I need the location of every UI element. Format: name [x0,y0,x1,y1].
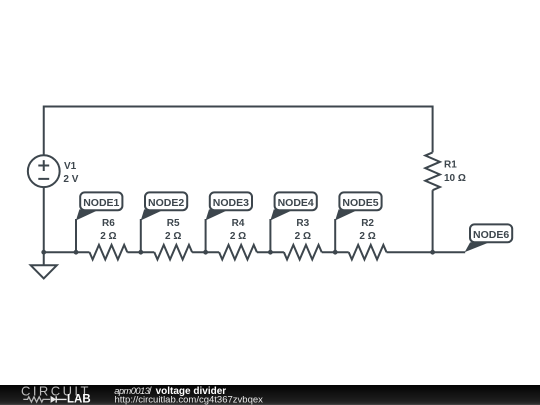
node NODE5 box [339,192,381,210]
junction node1 [74,250,79,255]
wire R6 to R5 [127,251,154,253]
wire NODE1 tail vertical [75,219,77,252]
wire bottom: ground node to R6 [43,251,90,253]
resistor R6 [90,245,128,260]
ground lead wire [43,252,45,265]
svg-text:NODE5: NODE5 [342,197,378,209]
junction node6 corner [430,250,435,255]
footer bar [0,385,540,405]
svg-text:NODE2: NODE2 [148,197,184,209]
node NODE4 tail [270,209,291,220]
wire left vertical to V1 top [43,106,45,156]
svg-text:http://circuitlab.com/cg4t367z: http://circuitlab.com/cg4t367zvbqex [115,394,264,405]
node NODE2 box [145,192,187,210]
svg-text:R5: R5 [167,218,180,229]
resistor R1 [425,152,440,190]
wire R1 bottom to corner junction [432,190,434,252]
resistor R3 [284,245,322,260]
node NODE3 tail [206,209,227,220]
node NODE5 tail [335,209,356,220]
svg-text:LAB: LAB [67,394,91,405]
svg-text:R4: R4 [232,218,245,229]
node NODE1 box [80,192,122,210]
wire NODE5 tail vertical [334,219,336,252]
node NODE1 tail [76,209,97,220]
wire NODE2 tail vertical [140,219,142,252]
wire R2 to NODE6 anchor [387,251,466,253]
wire NODE4 tail vertical [269,219,271,252]
svg-text:NODE3: NODE3 [213,197,249,209]
resistor R5 [154,245,192,260]
svg-text:R3: R3 [296,218,309,229]
wire right vertical to R1 top [432,106,434,153]
svg-text:NODE6: NODE6 [473,229,509,241]
svg-text:R1: R1 [444,160,457,171]
node NODE2 tail [141,209,162,220]
junction ground node [41,250,46,255]
node NODE4 box [275,192,317,210]
node NODE6 tail [465,242,488,252]
svg-text:2 Ω: 2 Ω [295,231,311,242]
resistor R2 [349,245,387,260]
wire R5 to R4 [192,251,219,253]
resistor R4 [219,245,257,260]
node NODE3 box [210,192,252,210]
junction node5 [333,250,338,255]
svg-text:V1: V1 [64,161,77,172]
wire R4 to R3 [257,251,284,253]
svg-text:NODE4: NODE4 [278,197,314,209]
wire R3 to R2 [322,251,349,253]
svg-text:R2: R2 [361,218,374,229]
junction node4 [268,250,273,255]
ground [31,265,57,278]
svg-text:2 Ω: 2 Ω [230,231,246,242]
svg-text:2 Ω: 2 Ω [359,231,375,242]
svg-text:NODE1: NODE1 [83,197,119,209]
logo resistor squiggle [23,397,50,402]
logo diode [51,396,57,403]
svg-text:10 Ω: 10 Ω [444,173,466,184]
svg-text:R6: R6 [102,218,115,229]
junction node3 [203,250,208,255]
wire V1 bottom to ground node [43,187,45,252]
wire NODE3 tail vertical [205,219,207,252]
wire top horizontal [44,106,433,108]
node NODE6 box [470,224,512,242]
svg-text:2 Ω: 2 Ω [100,231,116,242]
voltage source V1 [28,155,60,187]
svg-text:2 Ω: 2 Ω [165,231,181,242]
svg-text:2 V: 2 V [63,174,78,185]
junction node2 [138,250,143,255]
